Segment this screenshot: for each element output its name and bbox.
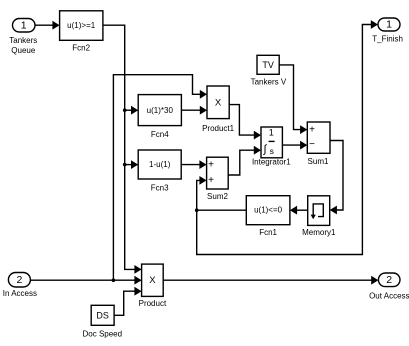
svg-text:1: 1 <box>21 19 27 31</box>
block Fcn2 <box>60 11 103 41</box>
svg-text:−: − <box>309 139 315 150</box>
svg-text:X: X <box>149 275 156 286</box>
arrowhead into Sum1 in2 <box>300 141 307 150</box>
arrowhead into Product1 in2 <box>200 106 207 115</box>
svg-text:Memory1: Memory1 <box>302 228 336 237</box>
wire Fcn2 to Product in1 <box>103 25 135 269</box>
svg-text:Integrator1: Integrator1 <box>252 157 291 166</box>
svg-text:Tankers: Tankers <box>9 36 37 45</box>
wire DS to Product in3 <box>114 291 135 315</box>
block Sum1 <box>307 122 330 153</box>
wire TV to Sum1 in1 <box>279 65 301 130</box>
arrowhead into Integrator1 in2 <box>254 146 261 155</box>
block Integrator1 <box>261 127 282 158</box>
svg-text:s: s <box>270 146 274 156</box>
arrowhead into Memory1 (pointing left) <box>330 206 337 215</box>
arrowhead into Product in2 <box>134 276 141 285</box>
wire Fcn4 to Product1 in2 <box>181 109 200 111</box>
wire Memory1 to Fcn1 <box>297 209 308 211</box>
svg-text:1: 1 <box>386 19 392 31</box>
wire Product1 to Integrator1 in1 <box>229 105 254 136</box>
block Fcn1 <box>246 196 290 225</box>
svg-text:In Access: In Access <box>3 289 37 298</box>
integrator fraction bar <box>269 140 275 142</box>
junction dot In Access branch <box>112 278 116 282</box>
wire Product to outport Out Access <box>163 279 371 281</box>
arrowhead into Fcn1 (pointing left) <box>290 206 297 215</box>
svg-text:2: 2 <box>386 274 392 286</box>
memory icon arrowhead <box>311 215 316 220</box>
arrowhead into Product in1 <box>134 265 141 274</box>
inport 1 Tankers Queue <box>13 19 36 33</box>
svg-text:Doc Speed: Doc Speed <box>83 329 123 338</box>
svg-text:u(1)>=1: u(1)>=1 <box>67 21 96 30</box>
svg-text:+: + <box>309 125 315 136</box>
wire feedback Fcn1 to T_Finish <box>197 25 372 255</box>
junction dot Fcn3 branch <box>123 163 127 167</box>
block Product1 <box>207 86 229 119</box>
wire branch to Fcn4 <box>125 109 132 111</box>
arrowhead into Product in3 <box>134 287 141 296</box>
svg-text:Product: Product <box>139 299 167 308</box>
svg-text:Fcn2: Fcn2 <box>72 43 90 52</box>
wire Fcn3 to Sum2 in1 <box>181 164 200 166</box>
junction dot Fcn1 output branch <box>195 208 199 212</box>
arrowhead into Fcn4 <box>131 106 138 115</box>
memory icon <box>313 204 323 217</box>
svg-text:Out Access: Out Access <box>369 292 409 301</box>
block Fcn4 <box>138 95 181 126</box>
wire Integrator1 to Sum1 in2 <box>282 144 300 146</box>
wire Sum2 to Integrator1 in2 <box>228 150 254 175</box>
wire branch to Fcn3 <box>125 164 132 166</box>
block Product <box>142 264 164 296</box>
wire Fcn1 to junction and Sum2 in2 <box>197 180 247 210</box>
svg-text:Tankers V: Tankers V <box>251 78 287 87</box>
arrowhead into Fcn3 <box>131 160 138 169</box>
block Memory1 <box>308 196 330 226</box>
svg-text:Queue: Queue <box>11 46 36 55</box>
wire In Access branch up to Product1 in1 <box>113 75 200 281</box>
svg-text:2: 2 <box>16 274 22 286</box>
arrowhead into Fcn2 <box>52 21 59 30</box>
block DS Doc Speed <box>91 305 114 325</box>
svg-text:DS: DS <box>96 311 109 321</box>
block Sum2 <box>207 157 229 189</box>
svg-text:Fcn4: Fcn4 <box>151 130 169 139</box>
block TV Tankers V <box>257 55 279 74</box>
svg-text:u(1)<=0: u(1)<=0 <box>254 206 283 215</box>
block Fcn3 <box>138 150 181 179</box>
wire inport1 to Fcn2 <box>35 24 53 26</box>
arrowhead into Product1 in1 <box>200 90 207 99</box>
svg-text:u(1)*30: u(1)*30 <box>147 106 174 115</box>
svg-text:Sum1: Sum1 <box>308 157 329 166</box>
arrowhead into Sum2 in2 <box>199 176 206 185</box>
arrowhead into Integrator1 in1 <box>254 131 261 140</box>
outport 1 T_Finish <box>378 18 400 31</box>
svg-text:Sum2: Sum2 <box>207 192 228 201</box>
svg-text:+: + <box>208 175 214 186</box>
arrowhead into T_Finish <box>371 20 378 29</box>
svg-text:Fcn3: Fcn3 <box>151 184 169 193</box>
svg-text:T_Finish: T_Finish <box>372 34 403 43</box>
svg-text:X: X <box>215 97 222 108</box>
svg-text:1-u(1): 1-u(1) <box>149 160 171 169</box>
svg-text:TV: TV <box>262 60 274 70</box>
svg-text:1: 1 <box>269 128 274 138</box>
arrowhead into Sum1 in1 <box>300 125 307 134</box>
outport 2 Out Access <box>378 273 400 287</box>
svg-text:Fcn1: Fcn1 <box>259 228 277 237</box>
arrowhead into Sum2 in1 <box>199 160 206 169</box>
svg-text:Product1: Product1 <box>202 124 235 133</box>
arrowhead into Out Access <box>371 276 378 285</box>
junction dot Fcn4 branch <box>123 108 127 112</box>
svg-text:+: + <box>208 160 214 171</box>
wire Sum1 to Memory1 <box>330 141 343 211</box>
inport 2 In Access <box>8 273 30 288</box>
wire inport2 to Product in2 <box>30 279 135 281</box>
